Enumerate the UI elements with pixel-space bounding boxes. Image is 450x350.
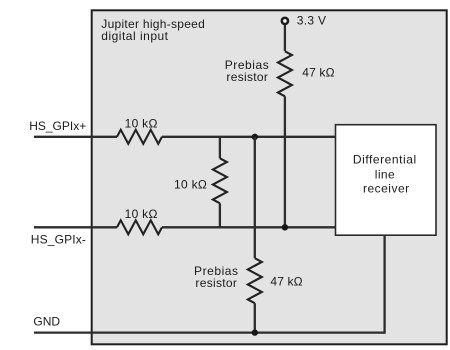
resistor R2 10 kOhm (HS_GPIx- series) xyxy=(117,220,162,234)
svg-text:10 kΩ: 10 kΩ xyxy=(125,117,158,131)
junction: HS_GPIx+ rail to bottom prebias branch xyxy=(252,134,258,140)
wire: HS_GPIx- rail left segment xyxy=(34,226,117,228)
wire: top prebias resistor down to HS_GPIx- rail (crosses HS_GPIx+) xyxy=(284,96,286,227)
resistor R1 10 kOhm (HS_GPIx+ series) xyxy=(117,130,162,144)
enclosure box: Jupiter high-speed digital input xyxy=(92,10,447,344)
svg-text:digital input: digital input xyxy=(101,29,168,43)
wire: 3.3 V to top prebias resistor xyxy=(284,25,286,52)
wire: HS_GPIx+ rail left segment xyxy=(34,136,117,138)
resistor R3 47 kOhm top prebias xyxy=(278,51,292,96)
resistor R4 10 kOhm between rails xyxy=(213,158,227,203)
resistor R5 47 kOhm bottom prebias xyxy=(248,258,262,303)
junction: top prebias to HS_GPIx- rail xyxy=(282,224,288,230)
label: Differential line receiver xyxy=(353,153,417,196)
svg-text:3.3 V: 3.3 V xyxy=(297,14,327,28)
svg-text:resistor: resistor xyxy=(195,276,237,290)
svg-text:47 kΩ: 47 kΩ xyxy=(302,66,334,80)
wire: bottom prebias resistor to GND rail xyxy=(254,303,256,332)
svg-text:receiver: receiver xyxy=(363,181,410,195)
receiver U1: differential line receiver box xyxy=(336,125,437,236)
junction: bottom prebias to GND rail xyxy=(252,329,258,335)
svg-text:HS_GPIx-: HS_GPIx- xyxy=(31,232,86,246)
svg-text:resistor: resistor xyxy=(226,70,268,84)
svg-text:47 kΩ: 47 kΩ xyxy=(270,275,302,289)
svg-text:GND: GND xyxy=(33,315,60,329)
wire: HS_GPIx- rail right segment xyxy=(162,226,336,228)
svg-text:10 kΩ: 10 kΩ xyxy=(125,207,158,221)
power terminal 3.3 V xyxy=(282,18,288,24)
wire: HS_GPIx+ rail to middle resistor xyxy=(219,137,221,159)
svg-text:line: line xyxy=(375,168,395,182)
wire: receiver ground pin to GND rail xyxy=(383,235,385,334)
wire: HS_GPIx+ junction down to bottom prebias resistor (crosses HS_GPIx-) xyxy=(254,137,256,258)
wire: HS_GPIx+ rail right segment xyxy=(162,136,336,138)
label: Prebias resistor (bottom) xyxy=(194,264,239,290)
svg-text:10 kΩ: 10 kΩ xyxy=(174,177,207,191)
label: Prebias resistor (top) xyxy=(225,58,270,84)
label: Jupiter high-speed digital input xyxy=(101,17,205,43)
wire: GND rail xyxy=(34,331,385,333)
wire: middle resistor to HS_GPIx- rail xyxy=(219,203,221,227)
svg-text:Differential: Differential xyxy=(353,153,417,167)
svg-text:HS_GPIx+: HS_GPIx+ xyxy=(29,119,86,133)
